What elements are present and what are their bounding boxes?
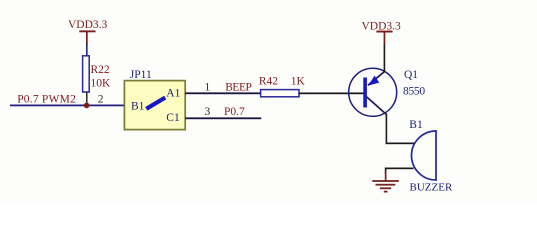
resistor R22 <box>83 56 90 92</box>
svg-text:A1: A1 <box>166 88 180 100</box>
wire Q1 collector to buzzer pin 1 <box>386 143 415 145</box>
jumper bar B1-A1 <box>146 98 165 109</box>
svg-text:P0.7: P0.7 <box>224 106 245 118</box>
transistor Q1 <box>349 68 397 116</box>
pin number 2 <box>98 94 104 106</box>
wire R42 to Q1 base <box>299 93 364 95</box>
label BUZZER <box>410 182 453 194</box>
node BEEP <box>225 82 251 94</box>
pin Q1 collector wire down <box>386 114 388 145</box>
svg-text:BUZZER: BUZZER <box>410 182 453 194</box>
svg-text:B1: B1 <box>131 101 145 113</box>
designator B1 <box>409 119 423 131</box>
svg-text:Q1: Q1 <box>404 69 418 81</box>
resistor R42 <box>261 90 299 97</box>
wire buzzer pin 2 to ground <box>385 168 414 175</box>
node P0.7 PWM2 <box>17 94 76 106</box>
svg-text:BEEP: BEEP <box>225 82 251 94</box>
buzzer B1 body <box>411 131 436 180</box>
svg-text:C1: C1 <box>166 112 180 124</box>
svg-text:2: 2 <box>98 94 104 106</box>
power VDD3.3 (left) <box>68 19 108 45</box>
svg-text:1K: 1K <box>291 76 306 88</box>
wire pin1 to R42 <box>185 92 261 94</box>
svg-text:B1: B1 <box>409 119 423 131</box>
wire net P0.7_PWM2 horizontal <box>10 105 125 107</box>
value label R22 10K <box>91 64 112 89</box>
svg-text:R42: R42 <box>259 76 278 88</box>
wire pin3 P0.7 <box>185 117 261 119</box>
node P0.7 <box>224 106 245 118</box>
svg-text:8550: 8550 <box>403 86 425 98</box>
junction <box>84 103 90 109</box>
power VDD3.3 (right) <box>362 21 402 45</box>
svg-text:JP11: JP11 <box>130 69 152 81</box>
svg-text:3: 3 <box>205 106 211 118</box>
pin number 1 <box>205 81 211 93</box>
pin number 3 <box>205 106 211 118</box>
svg-text:VDD3.3: VDD3.3 <box>68 19 108 31</box>
pin B1 label <box>131 101 145 113</box>
svg-text:10K: 10K <box>91 77 112 89</box>
pin A1 label <box>166 88 180 100</box>
svg-text:R22: R22 <box>91 64 110 76</box>
pin C1 label <box>166 112 180 124</box>
pin Q1 emitter wire up <box>384 44 386 73</box>
value label R42 1K <box>259 76 306 88</box>
svg-text:P0.7 PWM2: P0.7 PWM2 <box>17 94 76 106</box>
designator Q1 8550 <box>403 69 425 98</box>
wire VDD to R22 <box>86 44 88 57</box>
pin R22 bottom <box>86 92 87 106</box>
svg-text:1: 1 <box>205 81 211 93</box>
ground <box>372 172 399 193</box>
connector JP11 <box>124 69 185 129</box>
